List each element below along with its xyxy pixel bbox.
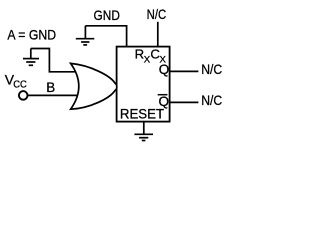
svg-text:RESET: RESET xyxy=(120,106,164,121)
OR gate xyxy=(71,63,117,109)
svg-text:N/C: N/C xyxy=(201,62,222,77)
ground (RESET) xyxy=(134,134,153,140)
svg-text:GND: GND xyxy=(94,8,121,23)
ground (node A) xyxy=(23,49,39,66)
svg-text:B: B xyxy=(46,80,55,95)
IC U1 body xyxy=(117,47,170,122)
wire: RESET pin to ground xyxy=(143,122,145,135)
svg-text:A = GND: A = GND xyxy=(7,28,56,43)
svg-text:R: R xyxy=(135,47,145,62)
svg-text:N/C: N/C xyxy=(147,7,167,22)
ground (GND pin) xyxy=(76,26,95,45)
svg-text:CC: CC xyxy=(13,80,27,91)
svg-text:N/C: N/C xyxy=(201,93,222,108)
wire: N/C to IC top pin xyxy=(157,22,159,47)
wire: B input xyxy=(27,94,80,96)
terminal circle Vcc xyxy=(19,91,28,100)
svg-text:Q: Q xyxy=(159,62,170,77)
wire: GND to IC top pin xyxy=(85,26,126,47)
wire: Q output to N/C xyxy=(170,70,199,72)
wire: Q-bar output to N/C xyxy=(170,101,199,103)
wire: node A ground to OR gate upper input xyxy=(31,49,78,72)
